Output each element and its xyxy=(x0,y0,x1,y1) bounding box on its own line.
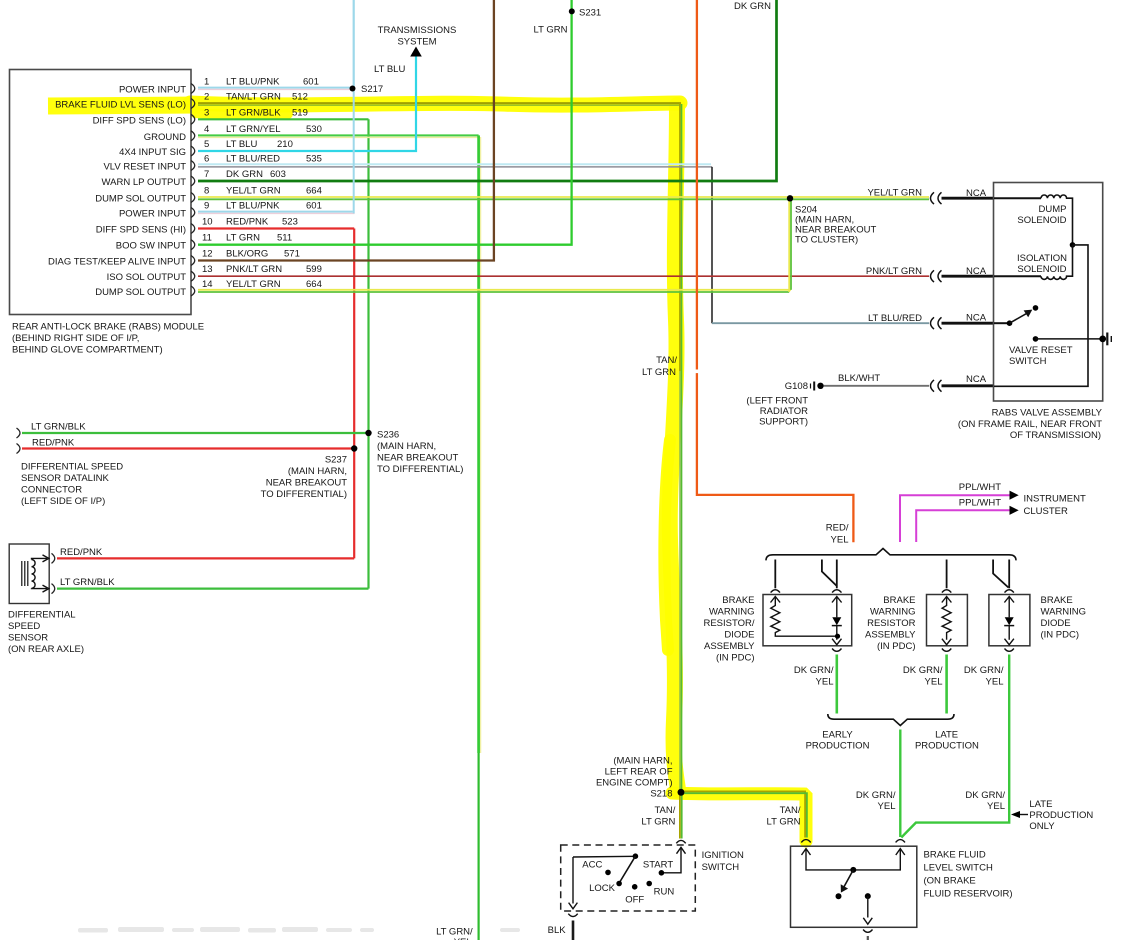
resistor R1 xyxy=(771,597,781,603)
highlighter mark over circuit 512 (horizontal run) xyxy=(190,103,680,105)
svg-text:CLUSTER: CLUSTER xyxy=(1024,506,1068,517)
svg-text:GROUND: GROUND xyxy=(144,132,186,143)
splice S237 xyxy=(351,445,357,451)
svg-text:210: 210 xyxy=(277,139,293,150)
wire DK GRN/YEL below assembly 1 xyxy=(835,655,838,714)
diode D1 xyxy=(832,597,842,603)
svg-text:LT GRN: LT GRN xyxy=(767,816,801,827)
svg-text:SENSOR: SENSOR xyxy=(8,633,48,644)
svg-text:OFF: OFF xyxy=(625,894,644,905)
sensor upper lead with arrow xyxy=(32,558,48,559)
svg-text:TAN/: TAN/ xyxy=(654,805,675,816)
svg-text:BLK/WHT: BLK/WHT xyxy=(838,373,880,384)
highlighter mark widening (left side of vertical run) xyxy=(664,440,670,650)
wire PPL/WHT lower to instrument cluster xyxy=(916,510,1009,542)
connector arcs at assembly 1 top xyxy=(771,590,780,593)
connector arc below assembly 3 xyxy=(1005,649,1014,652)
svg-text:DIODE: DIODE xyxy=(1041,618,1071,629)
brake switch contact lower xyxy=(836,893,842,899)
svg-text:4: 4 xyxy=(204,124,209,135)
wire LT BLU/PNK vertical above S217 off-page xyxy=(353,0,355,89)
wire DK GRN/YEL below assembly 2 xyxy=(945,655,948,714)
svg-text:ACC: ACC xyxy=(582,860,602,871)
connector arc for LT GRN/BLK datalink xyxy=(17,428,21,438)
svg-text:LT GRN: LT GRN xyxy=(641,816,675,827)
svg-text:10: 10 xyxy=(202,217,213,228)
pin 14 connector arc xyxy=(191,286,195,296)
svg-text:SPEED: SPEED xyxy=(8,621,40,632)
svg-text:601: 601 xyxy=(306,201,322,212)
pin 11 connector arc xyxy=(191,240,195,250)
svg-text:EARLY: EARLY xyxy=(822,729,853,740)
svg-text:DK GRN/: DK GRN/ xyxy=(794,665,834,676)
svg-text:(LEFT SIDE OF I/P): (LEFT SIDE OF I/P) xyxy=(21,496,105,507)
highlighter mark over circuit 512 (vertical run) xyxy=(670,105,678,790)
highlighter mark over circuit 512 (horizontal run, left) xyxy=(48,105,200,106)
svg-text:BRAKE: BRAKE xyxy=(722,595,754,606)
connector arc at assembly 2 top xyxy=(942,590,951,593)
svg-text:11: 11 xyxy=(202,233,212,244)
highlighter mark over S218 branch to brake fluid switch xyxy=(672,793,806,841)
connector arc below assembly 1 xyxy=(832,649,841,652)
svg-text:ASSEMBLY: ASSEMBLY xyxy=(704,641,755,652)
svg-text:DK GRN/: DK GRN/ xyxy=(856,790,896,801)
svg-text:TO DIFFERENTIAL): TO DIFFERENTIAL) xyxy=(261,489,347,500)
svg-text:YEL/LT GRN: YEL/LT GRN xyxy=(226,186,281,197)
pin 7 connector arc xyxy=(191,176,195,186)
brake switch internal top wire xyxy=(806,849,900,870)
ignition switch dashed box xyxy=(561,845,696,911)
highlighter mark over pin 3 text row xyxy=(195,113,288,115)
svg-text:DK GRN/: DK GRN/ xyxy=(964,665,1004,676)
svg-text:LATE: LATE xyxy=(935,729,958,740)
connector C3 arcs xyxy=(931,317,942,329)
wire DK GRN/YEL below assembly 3 late production xyxy=(901,655,1009,838)
wire below brake switch xyxy=(867,936,869,940)
svg-text:G108: G108 xyxy=(785,381,808,392)
ground at valve assembly xyxy=(1099,336,1106,343)
svg-text:RED/PNK: RED/PNK xyxy=(226,217,269,228)
pin 3 connector arc xyxy=(191,114,195,124)
svg-text:BRAKE FLUID: BRAKE FLUID xyxy=(924,850,986,861)
junction node assembly 1 xyxy=(835,634,840,639)
exit arrow assembly 2 xyxy=(942,639,951,645)
svg-text:9: 9 xyxy=(204,201,209,212)
svg-text:YEL: YEL xyxy=(878,801,896,812)
svg-text:TRANSMISSIONS: TRANSMISSIONS xyxy=(378,25,457,36)
svg-text:LT GRN: LT GRN xyxy=(534,25,568,36)
svg-text:NEAR BREAKOUT: NEAR BREAKOUT xyxy=(377,453,458,464)
ignition internal wire to START xyxy=(661,847,681,873)
arrow to instrument cluster upper xyxy=(1010,491,1019,500)
wire TAN/LT GRN branch from S218 to brake fluid switch xyxy=(681,791,805,837)
svg-text:DIFF SPD SENS (HI): DIFF SPD SENS (HI) xyxy=(96,225,186,236)
svg-text:VALVE RESET: VALVE RESET xyxy=(1009,345,1073,356)
svg-text:S217: S217 xyxy=(361,84,383,95)
wire drop to diode of assembly 1 xyxy=(836,560,838,589)
wire YEL/LT GRN 664 vertical from pin 14 up to S204 xyxy=(788,198,790,292)
svg-text:601: 601 xyxy=(303,77,319,88)
svg-text:3: 3 xyxy=(204,107,209,118)
svg-text:LT BLU: LT BLU xyxy=(226,139,257,150)
svg-text:RESISTOR/: RESISTOR/ xyxy=(703,618,754,629)
svg-text:LT GRN/BLK: LT GRN/BLK xyxy=(226,107,281,118)
wire NCA to isolation solenoid xyxy=(942,275,995,278)
pin 1 connector arc xyxy=(191,84,195,94)
svg-text:YEL: YEL xyxy=(831,535,849,546)
contact START xyxy=(659,870,665,876)
pin 6 connector arc xyxy=(191,161,195,171)
ignition exit wire with arrow xyxy=(572,857,574,904)
svg-text:(ON REAR AXLE): (ON REAR AXLE) xyxy=(8,644,84,655)
wire YEL/LT GRN 664 pin 8 horizontal to connector via S204 xyxy=(198,196,929,198)
svg-text:S237: S237 xyxy=(325,455,347,466)
svg-text:14: 14 xyxy=(202,279,213,290)
valve reset switch SW1 xyxy=(994,322,1010,324)
svg-text:OF TRANSMISSION): OF TRANSMISSION) xyxy=(1010,430,1101,441)
lower brace xyxy=(828,714,954,726)
svg-text:LT BLU/RED: LT BLU/RED xyxy=(868,313,922,324)
brake switch output contact xyxy=(865,893,871,899)
svg-text:ENGINE COMPT): ENGINE COMPT) xyxy=(596,778,673,789)
resistor R2 xyxy=(942,597,952,603)
ignition rotor lever xyxy=(620,856,636,882)
svg-text:PNK/LT GRN: PNK/LT GRN xyxy=(866,266,922,277)
wire drop to assembly 2 xyxy=(946,560,948,589)
svg-text:POWER INPUT: POWER INPUT xyxy=(119,209,186,220)
svg-text:511: 511 xyxy=(277,233,292,244)
svg-text:TAN/: TAN/ xyxy=(780,805,801,816)
svg-text:664: 664 xyxy=(306,279,322,290)
svg-text:ONLY: ONLY xyxy=(1029,821,1055,832)
svg-text:BEHIND GLOVE COMPARTMENT): BEHIND GLOVE COMPARTMENT) xyxy=(12,345,163,356)
svg-text:530: 530 xyxy=(306,124,322,135)
wire RED/PNK sensor to riser xyxy=(57,557,354,559)
svg-text:664: 664 xyxy=(306,186,322,197)
svg-text:LT BLU/RED: LT BLU/RED xyxy=(226,154,280,165)
svg-text:CONNECTOR: CONNECTOR xyxy=(21,485,82,496)
svg-text:LEVEL SWITCH: LEVEL SWITCH xyxy=(924,863,993,874)
svg-text:LT GRN: LT GRN xyxy=(642,367,676,378)
pin 5 connector arc xyxy=(191,146,195,156)
brake fluid level switch box xyxy=(791,846,917,927)
wire YEL/LT GRN 664 pin 14 horizontal xyxy=(198,289,791,291)
svg-text:6: 6 xyxy=(204,154,209,165)
isolation solenoid L2 xyxy=(994,275,1041,277)
svg-text:TO DIFFERENTIAL): TO DIFFERENTIAL) xyxy=(377,464,463,475)
svg-text:(ON BRAKE: (ON BRAKE xyxy=(924,876,976,887)
splice S217 xyxy=(350,86,356,92)
connector arc for RED/PNK datalink xyxy=(17,444,21,454)
svg-text:(IN PDC): (IN PDC) xyxy=(1041,630,1080,641)
contact OFF xyxy=(632,884,638,890)
svg-text:ISO SOL OUTPUT: ISO SOL OUTPUT xyxy=(107,272,187,283)
svg-text:LEFT REAR OF: LEFT REAR OF xyxy=(605,767,673,778)
connector C2 arcs xyxy=(931,270,942,282)
pin 13 connector arc xyxy=(191,271,195,281)
svg-text:YEL: YEL xyxy=(925,677,943,688)
svg-text:LT BLU: LT BLU xyxy=(374,64,405,75)
svg-text:ASSEMBLY: ASSEMBLY xyxy=(865,630,916,641)
connector arcs into brake fluid level switch xyxy=(801,840,810,843)
wire BLK/WHT from G108 xyxy=(824,385,930,387)
svg-text:(ON FRAME RAIL, NEAR FRONT: (ON FRAME RAIL, NEAR FRONT xyxy=(958,419,1102,430)
wire PNK/LT GRN 599 pin 13 horizontal to connector xyxy=(198,275,929,277)
wire NCA ground into assembly xyxy=(942,384,995,387)
svg-text:DIAG TEST/KEEP ALIVE INPUT: DIAG TEST/KEEP ALIVE INPUT xyxy=(48,257,186,268)
svg-text:WARN LP OUTPUT: WARN LP OUTPUT xyxy=(102,177,187,188)
brake warning diode box xyxy=(989,595,1030,646)
wire LT GRN/BLK sensor to riser xyxy=(57,587,369,589)
connector arc at assembly 3 top xyxy=(1005,590,1014,593)
svg-text:SOLENOID: SOLENOID xyxy=(1017,264,1066,275)
svg-text:(MAIN HARN,: (MAIN HARN, xyxy=(613,756,672,767)
wire RED/PNK 523 pin 10 horizontal xyxy=(198,227,354,229)
svg-text:IGNITION: IGNITION xyxy=(702,850,744,861)
svg-text:2: 2 xyxy=(204,92,209,103)
svg-text:FLUID RESERVOIR): FLUID RESERVOIR) xyxy=(924,889,1013,900)
svg-text:LT GRN: LT GRN xyxy=(226,233,260,244)
svg-text:YEL: YEL xyxy=(986,677,1004,688)
differential speed sensor box xyxy=(9,544,49,604)
svg-text:DIODE: DIODE xyxy=(724,630,754,641)
svg-text:TAN/: TAN/ xyxy=(656,355,677,366)
contact ACC xyxy=(605,870,611,876)
svg-text:SYSTEM: SYSTEM xyxy=(397,37,436,48)
sensor core bars xyxy=(22,561,28,586)
wire LT GRN/BLK 519 vertical to S236 and down to sensor row xyxy=(367,119,369,588)
svg-text:POWER INPUT: POWER INPUT xyxy=(119,85,186,96)
svg-text:5: 5 xyxy=(204,139,209,150)
svg-text:TAN/LT GRN: TAN/LT GRN xyxy=(226,92,281,103)
svg-text:LT GRN/YEL: LT GRN/YEL xyxy=(226,124,281,135)
ignition entry arrow xyxy=(677,847,686,853)
svg-text:S218: S218 xyxy=(650,788,672,799)
wire LT GRN/BLK datalink to S236 xyxy=(22,432,369,434)
brake switch entry arrows xyxy=(802,849,811,855)
connector arc below brake switch xyxy=(863,930,872,933)
pin 8 connector arc xyxy=(191,193,195,203)
svg-text:12: 12 xyxy=(202,249,213,260)
svg-text:(IN PDC): (IN PDC) xyxy=(877,641,916,652)
svg-text:YEL/LT GRN: YEL/LT GRN xyxy=(867,188,922,199)
ground G108 symbol xyxy=(810,384,812,389)
svg-text:YEL: YEL xyxy=(987,801,1005,812)
svg-text:(BEHIND RIGHT SIDE OF I/P,: (BEHIND RIGHT SIDE OF I/P, xyxy=(12,333,139,344)
wire LT GRN/YEL 530 pin 4 horizontal xyxy=(198,134,479,136)
arrow late production only xyxy=(1013,814,1028,816)
svg-text:PNK/LT GRN: PNK/LT GRN xyxy=(226,264,282,275)
svg-text:DK GRN: DK GRN xyxy=(226,169,263,180)
wire TAN/LT GRN 512 vertical run down to S218 xyxy=(679,103,681,371)
wire LT GRN/BLK 519 pin 3 horizontal xyxy=(198,118,369,120)
svg-text:REAR ANTI-LOCK BRAKE (RABS) MO: REAR ANTI-LOCK BRAKE (RABS) MODULE xyxy=(12,322,204,333)
faint cropped text ghost row at page bottom xyxy=(78,927,520,933)
wire BLK below ignition switch xyxy=(572,921,575,940)
svg-text:BRAKE: BRAKE xyxy=(883,595,915,606)
wire NCA to dump solenoid xyxy=(942,197,995,200)
junction node solenoid common xyxy=(1070,242,1076,248)
svg-text:S231: S231 xyxy=(579,8,601,19)
wire PPL/WHT upper to instrument cluster xyxy=(900,495,1010,542)
svg-text:DIFFERENTIAL: DIFFERENTIAL xyxy=(8,610,76,621)
svg-text:TO CLUSTER): TO CLUSTER) xyxy=(795,235,858,246)
svg-text:DK GRN/: DK GRN/ xyxy=(965,790,1005,801)
svg-text:SWITCH: SWITCH xyxy=(1009,356,1047,367)
wire BLK/ORG 571 pin 12 horizontal and vertical up off-page xyxy=(198,0,494,261)
svg-text:RED/: RED/ xyxy=(826,523,849,534)
wire LT GRN 511 pin 11 horizontal and vertical up to S231 off-page xyxy=(198,0,572,245)
svg-text:DUMP SOL OUTPUT: DUMP SOL OUTPUT xyxy=(95,287,186,298)
wire LT BLU/RED 535 pin 6 horizontal xyxy=(198,163,711,165)
brake switch pivot xyxy=(850,867,856,873)
wire drop to assembly 3 xyxy=(1008,560,1010,589)
exit arrow assembly 3 xyxy=(1005,639,1014,645)
pin 4 connector arc xyxy=(191,131,195,141)
wire DK GRN/YEL from brace to brake fluid level switch xyxy=(899,730,901,838)
svg-text:DIFF SPD SENS (LO): DIFF SPD SENS (LO) xyxy=(93,115,186,126)
svg-text:DK GRN/: DK GRN/ xyxy=(903,665,943,676)
svg-text:(MAIN HARN,: (MAIN HARN, xyxy=(377,441,436,452)
brake switch output wire with arrow xyxy=(867,896,869,917)
svg-text:DK GRN: DK GRN xyxy=(734,1,771,12)
svg-text:WARNING: WARNING xyxy=(709,607,755,618)
svg-text:WARNING: WARNING xyxy=(1041,607,1087,618)
arrow to instrument cluster lower xyxy=(1010,506,1019,515)
wire LT GRN/YEL 530 long vertical to page bottom xyxy=(477,135,480,753)
brake warning resistor assembly box xyxy=(927,595,968,646)
RABS module box U1 xyxy=(10,70,192,315)
svg-text:519: 519 xyxy=(292,107,308,118)
pin 9 connector arc xyxy=(191,208,195,218)
svg-text:RESISTOR: RESISTOR xyxy=(867,618,916,629)
svg-text:7: 7 xyxy=(204,169,209,180)
svg-text:599: 599 xyxy=(306,264,322,275)
svg-text:535: 535 xyxy=(306,154,322,165)
dump solenoid L1 xyxy=(994,197,1041,199)
svg-text:LT GRN/: LT GRN/ xyxy=(436,927,473,938)
splice S218 dot overlay xyxy=(678,789,685,796)
svg-text:603: 603 xyxy=(270,169,286,180)
svg-text:(IN PDC): (IN PDC) xyxy=(716,653,755,664)
wire LT BLU/RED to valve reset switch xyxy=(712,322,929,324)
svg-text:PPL/WHT: PPL/WHT xyxy=(959,482,1001,493)
svg-text:512: 512 xyxy=(292,92,308,103)
svg-text:SUPPORT): SUPPORT) xyxy=(759,417,808,428)
splice S204 xyxy=(787,195,793,201)
svg-text:DUMP: DUMP xyxy=(1039,204,1067,215)
svg-text:PRODUCTION: PRODUCTION xyxy=(915,741,979,752)
wire drop diagonal to diode of assembly 1 xyxy=(822,560,837,587)
svg-text:4X4 INPUT SIG: 4X4 INPUT SIG xyxy=(119,147,186,158)
connector arc below ignition switch xyxy=(568,914,577,917)
svg-text:(MAIN HARN,: (MAIN HARN, xyxy=(288,466,347,477)
svg-text:BLK: BLK xyxy=(548,925,567,936)
svg-text:PRODUCTION: PRODUCTION xyxy=(806,741,870,752)
wire DK GRN 603 pin 7 horizontal and vertical up off-page xyxy=(198,0,777,181)
splice S236 xyxy=(365,430,371,436)
exit arrow assembly 1 xyxy=(832,639,841,645)
upper brace xyxy=(766,549,1016,561)
seam break in RED/YEL line xyxy=(693,370,701,374)
svg-text:BRAKE FLUID LVL SENS (LO): BRAKE FLUID LVL SENS (LO) xyxy=(55,100,186,111)
svg-text:RUN: RUN xyxy=(654,887,675,898)
sensor coil L3 xyxy=(32,560,36,589)
svg-text:BOO SW INPUT: BOO SW INPUT xyxy=(116,241,186,252)
arrow to transmissions system xyxy=(410,47,422,57)
wire LT BLU/RED 535 vertical (drawn dark) down to valve reset row xyxy=(711,167,713,323)
ignition feed line xyxy=(573,855,635,858)
wire LT BLU 210 pin 5 to transmissions system arrow xyxy=(198,56,416,151)
brake warning resistor/diode assembly box xyxy=(763,595,852,646)
wire RED/PNK 523 vertical down through S237 to sensor row xyxy=(353,229,355,559)
svg-text:START: START xyxy=(643,860,673,871)
sensor lower lead with arrow xyxy=(32,587,48,589)
wire TAN/LT GRN from S218 down to ignition switch xyxy=(679,792,681,838)
brake switch lever with arrow xyxy=(843,870,854,890)
svg-text:VLV RESET INPUT: VLV RESET INPUT xyxy=(103,162,186,173)
svg-text:523: 523 xyxy=(282,217,298,228)
wire drop to resistor of assembly 1 xyxy=(774,560,776,589)
svg-text:RED/PNK: RED/PNK xyxy=(60,547,103,558)
wire LT BLU/PNK 601 pin 1 to S217 xyxy=(198,87,352,89)
wire NCA to valve reset switch xyxy=(942,322,995,325)
connector C1 arcs xyxy=(931,192,942,204)
svg-text:S236: S236 xyxy=(377,430,399,441)
wire drop diagonal to assembly 3 xyxy=(993,560,1008,588)
wire RED/PNK datalink to S237 xyxy=(22,447,354,449)
svg-text:BRAKE: BRAKE xyxy=(1041,595,1073,606)
svg-text:RED/PNK: RED/PNK xyxy=(32,438,75,449)
splice S218 xyxy=(678,789,685,796)
svg-text:INSTRUMENT: INSTRUMENT xyxy=(1024,494,1086,505)
svg-text:RADIATOR: RADIATOR xyxy=(760,406,808,417)
pin 10 connector arc xyxy=(191,224,195,234)
pin 2 connector arc xyxy=(191,99,195,109)
pin 12 connector arc xyxy=(191,256,195,266)
svg-text:SOLENOID: SOLENOID xyxy=(1017,215,1066,226)
contact RUN xyxy=(646,881,652,887)
svg-text:PPL/WHT: PPL/WHT xyxy=(959,497,1001,508)
svg-text:(LEFT FRONT: (LEFT FRONT xyxy=(746,396,808,407)
splice S231 xyxy=(569,8,575,14)
connector C4 arcs xyxy=(931,380,942,392)
svg-text:DUMP SOL OUTPUT: DUMP SOL OUTPUT xyxy=(95,194,186,205)
RABS valve assembly box xyxy=(994,183,1103,402)
svg-text:YEL/LT GRN: YEL/LT GRN xyxy=(226,279,281,290)
svg-text:LT GRN/BLK: LT GRN/BLK xyxy=(60,577,115,588)
wire TAN/LT GRN 512 pin 2 horizontal to corner xyxy=(198,102,681,104)
svg-text:YEL: YEL xyxy=(816,677,834,688)
svg-text:LT BLU/PNK: LT BLU/PNK xyxy=(226,201,280,212)
contact LOCK xyxy=(616,881,622,887)
wire LT BLU/PNK 601 pin 9 horizontal and vertical up to S217 xyxy=(198,211,353,213)
svg-text:ISOLATION: ISOLATION xyxy=(1017,253,1067,264)
svg-text:LATE: LATE xyxy=(1029,799,1052,810)
svg-text:13: 13 xyxy=(202,264,213,275)
svg-text:SENSOR DATALINK: SENSOR DATALINK xyxy=(21,473,109,484)
svg-text:LOCK: LOCK xyxy=(589,883,616,894)
svg-text:DIFFERENTIAL SPEED: DIFFERENTIAL SPEED xyxy=(21,462,123,473)
svg-text:1: 1 xyxy=(204,77,209,88)
connector arc into ignition switch xyxy=(676,840,685,843)
ignition pivot xyxy=(633,853,639,859)
connector arc below assembly 2 xyxy=(942,649,951,652)
svg-text:NEAR BREAKOUT: NEAR BREAKOUT xyxy=(266,478,347,489)
wire RED/YEL vertical from top xyxy=(697,0,854,542)
svg-text:571: 571 xyxy=(284,249,300,260)
svg-text:8: 8 xyxy=(204,186,209,197)
